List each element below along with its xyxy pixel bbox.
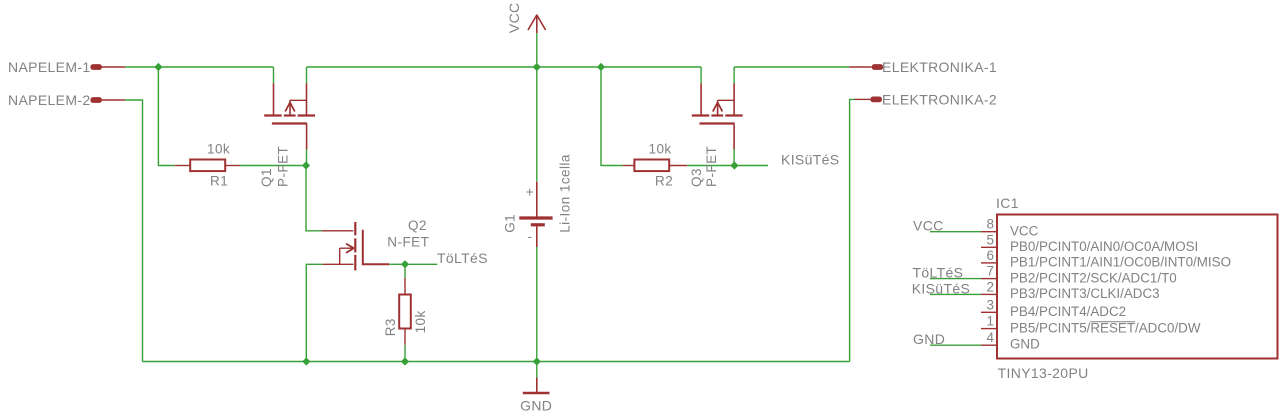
svg-text:VCC: VCC — [913, 218, 944, 234]
junction TöLTéS — [401, 260, 409, 268]
svg-text:10k: 10k — [413, 310, 428, 333]
wire R1 to Q1 gate junction — [240, 165, 306, 167]
svg-text:KISüTéS: KISüTéS — [912, 280, 970, 296]
svg-text:VCC: VCC — [506, 2, 522, 33]
svg-text:GND: GND — [520, 397, 552, 413]
wire NAPELEM-2 down — [125, 100, 142, 362]
svg-text:TINY13-20PU: TINY13-20PU — [998, 365, 1089, 381]
wire KISüTéS to IC — [930, 293, 981, 295]
wire VCC junction down to R2 — [601, 67, 623, 166]
svg-text:Q3: Q3 — [689, 168, 704, 187]
wire TöLTéS to IC — [930, 278, 981, 280]
svg-text:VCC: VCC — [1010, 223, 1039, 238]
svg-text:KISüTéS: KISüTéS — [781, 152, 839, 168]
junction Q2 source rail — [302, 357, 310, 365]
svg-text:R2: R2 — [655, 173, 673, 188]
wire junction1 down to R1 — [158, 67, 174, 166]
wire R2 to Q3 gate junction — [687, 165, 734, 167]
transistor Q3 P-FET — [692, 67, 743, 149]
resistor R3 — [399, 278, 411, 345]
resistor R1 — [175, 160, 241, 172]
wire bottom rail — [143, 361, 850, 363]
wire VCC down to battery — [536, 33, 538, 182]
node NAPELEM-2 pin — [90, 97, 125, 103]
node ELEKTRONIKA-1 pin — [849, 64, 883, 70]
ground GND symbol — [523, 378, 550, 393]
wire battery to bottom rail — [536, 247, 538, 362]
junction R2 branch — [597, 63, 605, 71]
svg-text:GND: GND — [1010, 337, 1040, 352]
svg-text:3: 3 — [987, 297, 995, 312]
node ELEKTRONIKA-2 pin — [855, 97, 882, 103]
svg-text:R3: R3 — [383, 318, 398, 336]
svg-text:6: 6 — [987, 248, 995, 263]
wire GND to IC — [930, 344, 981, 346]
svg-text:NAPELEM-2: NAPELEM-2 — [8, 92, 91, 108]
svg-text:PB5/PCINT5/RESET/ADC0/DW: PB5/PCINT5/RESET/ADC0/DW — [1010, 320, 1201, 335]
svg-text:+: + — [526, 185, 534, 200]
junction VCC rail — [533, 63, 541, 71]
svg-text:1: 1 — [987, 314, 995, 329]
wire NAPELEM-1 to junction — [125, 66, 158, 68]
wire R3 to bottom rail — [404, 345, 406, 362]
svg-text:Q1: Q1 — [259, 168, 274, 187]
svg-text:2: 2 — [987, 279, 995, 294]
wire ELEKTRONIKA-2 down to bottom rail — [850, 99, 855, 361]
wire bottom rail to GND — [536, 362, 538, 378]
wire VCC to IC — [930, 231, 981, 233]
svg-text:PB1/PCINT1/AIN1/OC0B/INT0/MISO: PB1/PCINT1/AIN1/OC0B/INT0/MISO — [1010, 254, 1231, 269]
svg-text:8: 8 — [987, 217, 995, 232]
svg-text:NAPELEM-1: NAPELEM-1 — [8, 59, 91, 75]
junction Q1 gate — [302, 161, 310, 169]
wire Q1 gate to junction — [306, 149, 308, 165]
svg-text:-: - — [528, 229, 533, 244]
svg-text:N-FET: N-FET — [387, 234, 429, 249]
svg-text:Li-Ion 1cella: Li-Ion 1cella — [558, 154, 573, 233]
wire KISüTéS stub — [734, 165, 768, 167]
svg-text:Q2: Q2 — [408, 218, 427, 233]
supply VCC arrow — [528, 15, 546, 34]
svg-text:TöLTéS: TöLTéS — [913, 265, 964, 281]
svg-text:IC1: IC1 — [996, 195, 1019, 211]
resistor R2 — [623, 160, 687, 172]
wire top rail left — [158, 66, 273, 68]
svg-text:GND: GND — [913, 331, 945, 347]
svg-text:ELEKTRONIKA-2: ELEKTRONIKA-2 — [882, 91, 997, 107]
svg-text:R1: R1 — [210, 173, 228, 188]
junction R3 rail — [401, 357, 409, 365]
svg-text:G1: G1 — [503, 214, 518, 233]
transistor Q2 N-FET — [322, 222, 390, 270]
svg-text:ELEKTRONIKA-1: ELEKTRONIKA-1 — [882, 59, 997, 75]
overline RESET — [1091, 321, 1136, 323]
svg-text:PB2/PCINT2/SCK/ADC1/T0: PB2/PCINT2/SCK/ADC1/T0 — [1010, 270, 1177, 285]
junction battery rail — [533, 357, 541, 365]
wire Q3 gate to junction — [733, 149, 735, 165]
svg-text:7: 7 — [987, 264, 995, 279]
svg-text:PB3/PCINT3/CLKI/ADC3: PB3/PCINT3/CLKI/ADC3 — [1010, 286, 1160, 301]
svg-text:PB0/PCINT0/AIN0/OC0A/MOSI: PB0/PCINT0/AIN0/OC0A/MOSI — [1010, 239, 1198, 254]
svg-text:10k: 10k — [207, 142, 230, 157]
transistor Q1 P-FET — [264, 67, 315, 149]
wire top rail right — [734, 66, 849, 68]
wire TöLTéS stub — [405, 263, 437, 265]
IC1 pin stubs — [981, 232, 997, 346]
junction Q3 gate — [730, 161, 738, 169]
wire junction to R3 — [404, 264, 406, 278]
wire Q2 source to bottom rail — [306, 264, 322, 361]
IC1 pin wires — [930, 232, 981, 346]
svg-text:P-FET: P-FET — [276, 146, 291, 187]
battery G1 — [519, 182, 552, 247]
svg-text:PB4/PCINT4/ADC2: PB4/PCINT4/ADC2 — [1010, 304, 1126, 319]
wire top rail mid — [307, 66, 702, 68]
node NAPELEM-1 pin — [90, 64, 125, 70]
svg-text:10k: 10k — [649, 142, 672, 157]
svg-text:4: 4 — [987, 330, 995, 345]
svg-text:5: 5 — [987, 232, 995, 247]
junction NAPELEM-1 — [154, 63, 162, 71]
IC1 box — [997, 215, 1278, 359]
svg-text:P-FET: P-FET — [704, 146, 719, 187]
svg-text:TöLTéS: TöLTéS — [437, 250, 488, 266]
wire Q2 gate to junction — [389, 263, 405, 265]
wire Q1 junction down to Q2 drain — [306, 166, 322, 231]
